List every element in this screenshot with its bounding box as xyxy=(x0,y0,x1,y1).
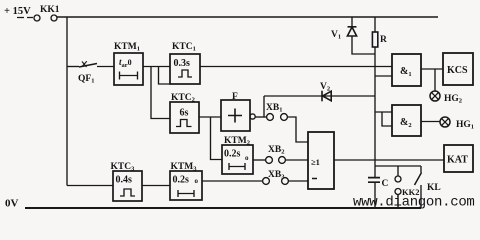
svg-text:C: C xyxy=(382,179,389,189)
wire AND U1 output to KCS xyxy=(421,68,443,70)
wire bus tap to AND U1 second input xyxy=(375,75,392,77)
wire stub to KTC1 lower pin xyxy=(159,67,171,85)
wire XB3 to OR gate input xyxy=(288,180,308,182)
OR gate U2 (>=1) xyxy=(308,132,334,189)
svg-text:KTC2: KTC2 xyxy=(171,93,195,104)
svg-text:KCS: KCS xyxy=(447,65,468,76)
lamp HG2 xyxy=(430,91,462,105)
wire left vertical feeder xyxy=(66,17,68,186)
wire KTC3 to KTM3 xyxy=(142,185,170,187)
AND gate U1 (&1) xyxy=(392,54,421,86)
contact KL xyxy=(415,166,441,208)
svg-text:0.2s: 0.2s xyxy=(173,175,190,186)
resistor R xyxy=(372,17,387,47)
svg-text:KTM1: KTM1 xyxy=(114,42,140,53)
watermark xyxy=(353,195,475,211)
wire bottom 0V rail xyxy=(25,207,421,209)
time relay KTM1 xyxy=(114,42,143,85)
wire OR output to KAT xyxy=(334,159,444,161)
jack XB3 xyxy=(263,170,289,184)
jack XB2 xyxy=(266,145,286,163)
svg-text:KTC1: KTC1 xyxy=(172,42,196,53)
wire riser to diode V2 line xyxy=(263,96,265,117)
jack KK2 xyxy=(395,166,419,208)
svg-text:KL: KL xyxy=(427,183,441,193)
time relay KTM2 xyxy=(222,136,253,174)
AND gate U3 (&2) xyxy=(392,105,421,136)
wire vertical bus xyxy=(374,47,376,208)
relay KAT xyxy=(444,145,473,172)
wire F output to XB1 xyxy=(255,116,266,118)
svg-text:KK1: KK1 xyxy=(40,5,60,15)
svg-text:≥1: ≥1 xyxy=(311,157,320,167)
breaker QF1 xyxy=(67,61,114,84)
wire XB2 to OR gate input xyxy=(285,159,308,161)
capacitor C xyxy=(368,178,389,189)
diode V1 xyxy=(331,17,375,54)
svg-text:6s: 6s xyxy=(180,108,189,119)
diode V2 xyxy=(264,82,375,101)
power label +15V xyxy=(4,6,31,17)
svg-text:KAT: KAT xyxy=(447,155,468,166)
wire KTM1 to KTC1 xyxy=(143,66,170,68)
0V label xyxy=(5,198,19,210)
wire top bar to KK2 and KL xyxy=(375,165,421,167)
svg-text:o: o xyxy=(195,177,199,185)
wire dashed lead from +15V xyxy=(17,17,33,19)
time relay KTM3 xyxy=(170,162,202,200)
lamp HG1 xyxy=(440,117,474,131)
timer KTC2 xyxy=(170,93,199,133)
svg-text:o: o xyxy=(245,154,249,162)
wire junction down to KTM2 xyxy=(211,117,223,160)
wire KTC3 feed xyxy=(67,185,113,187)
svg-text:KTM2: KTM2 xyxy=(224,136,250,147)
wire XB1 to OR gate input xyxy=(287,117,308,142)
wire KTC1 output to AND gate U1 xyxy=(200,66,392,68)
svg-text:0.2s: 0.2s xyxy=(224,149,241,160)
wire branch down to lamp HG2 xyxy=(434,69,436,91)
wire KTC2 output to F xyxy=(199,116,221,118)
wire bus bracket to AND U3 inputs xyxy=(375,112,392,126)
svg-text:0.3s: 0.3s xyxy=(174,58,191,69)
svg-text:KTM3: KTM3 xyxy=(171,162,198,173)
wire AND U3 output to lamp HG1 xyxy=(421,121,440,123)
jack XB1 xyxy=(266,103,287,120)
wire KTM3 output to XB3 xyxy=(202,180,263,182)
wire top +15V rail xyxy=(57,16,438,18)
relay KCS xyxy=(443,53,473,85)
svg-text:0V: 0V xyxy=(5,198,19,210)
svg-text:+ 15V: + 15V xyxy=(4,6,31,17)
wire KTM2 output to XB2 xyxy=(253,159,266,161)
svg-text:0.4s: 0.4s xyxy=(116,175,133,186)
svg-text:F: F xyxy=(232,92,238,102)
timer KTC3 xyxy=(111,162,143,201)
svg-text:www.diangon.com: www.diangon.com xyxy=(353,195,475,211)
timer KTC1 xyxy=(170,42,200,84)
svg-text:R: R xyxy=(380,35,387,45)
function block F xyxy=(221,92,255,131)
connector KK1 xyxy=(34,5,60,21)
wire junction down to KTC2 xyxy=(151,67,170,119)
